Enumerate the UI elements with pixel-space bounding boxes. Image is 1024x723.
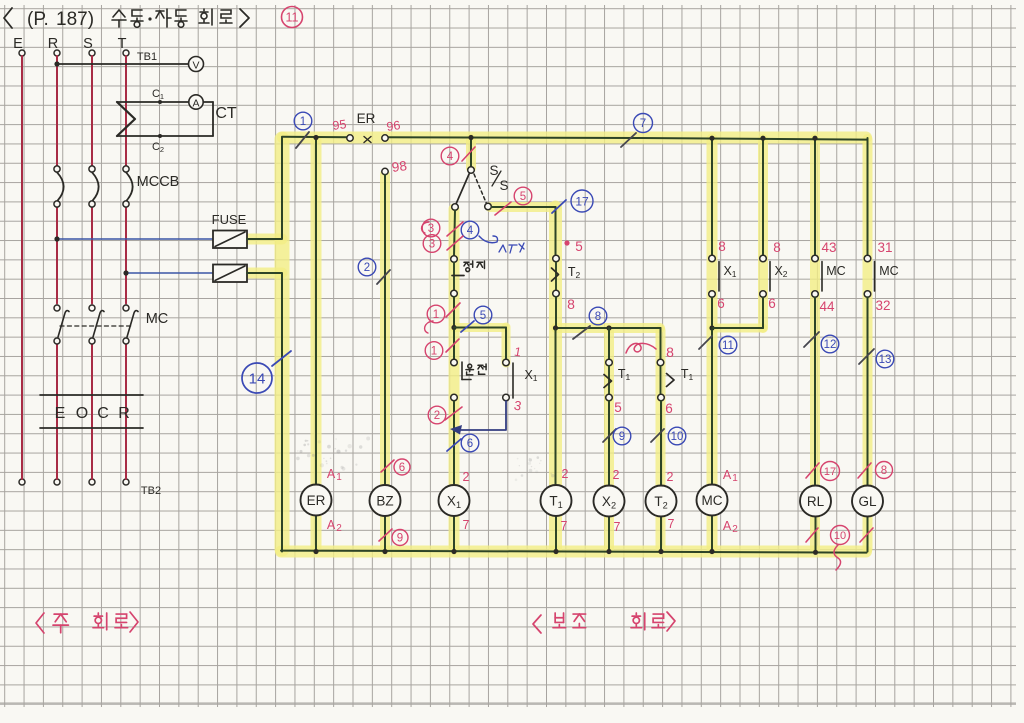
svg-text:6: 6	[717, 296, 725, 311]
svg-text:CT: CT	[215, 105, 237, 122]
svg-text:O: O	[76, 405, 88, 422]
svg-text:A: A	[327, 518, 336, 532]
svg-text:1: 1	[300, 116, 306, 128]
svg-text:7: 7	[561, 519, 568, 533]
svg-text:8: 8	[666, 344, 674, 360]
svg-text:V: V	[192, 60, 199, 72]
svg-text:1: 1	[336, 472, 342, 483]
svg-text:31: 31	[877, 240, 892, 255]
svg-text:(P.: (P.	[27, 9, 49, 30]
svg-text:17: 17	[824, 466, 836, 478]
svg-text:5: 5	[575, 239, 583, 254]
svg-text:MCCB: MCCB	[137, 174, 180, 190]
svg-text:BZ: BZ	[376, 494, 393, 509]
svg-text:10: 10	[671, 431, 684, 443]
svg-text:8: 8	[881, 465, 887, 477]
svg-text:9: 9	[619, 431, 625, 443]
svg-text:4: 4	[447, 151, 454, 163]
svg-text:ER: ER	[357, 111, 376, 126]
svg-text:14: 14	[249, 370, 266, 387]
svg-text:1: 1	[431, 346, 437, 358]
svg-text:2: 2	[613, 468, 620, 482]
svg-text:MC: MC	[879, 264, 898, 278]
svg-text:10: 10	[834, 530, 846, 542]
svg-text:E: E	[55, 405, 66, 422]
svg-text:A: A	[723, 468, 732, 482]
svg-text:3: 3	[429, 239, 435, 251]
svg-text:4: 4	[467, 225, 474, 237]
svg-text:TB1: TB1	[137, 51, 157, 63]
svg-text:17: 17	[575, 194, 589, 208]
svg-text:C: C	[97, 405, 109, 422]
svg-text:RL: RL	[807, 494, 825, 509]
svg-text:7: 7	[640, 118, 646, 130]
svg-text:6: 6	[665, 401, 673, 416]
svg-text:6: 6	[768, 296, 776, 311]
svg-text:32: 32	[875, 298, 890, 313]
svg-text:8: 8	[773, 240, 781, 255]
svg-text:2: 2	[463, 470, 470, 484]
svg-text:43: 43	[821, 240, 836, 255]
svg-text:GL: GL	[858, 494, 877, 509]
svg-text:8: 8	[567, 296, 575, 312]
svg-text:7: 7	[614, 520, 621, 534]
svg-text:9: 9	[397, 533, 403, 545]
svg-text:2: 2	[667, 470, 674, 484]
svg-text:2: 2	[434, 410, 440, 422]
svg-text:2: 2	[732, 524, 738, 535]
svg-text:12: 12	[824, 339, 837, 351]
svg-text:A: A	[723, 519, 732, 533]
svg-text:1: 1	[732, 473, 738, 484]
svg-text:A: A	[327, 467, 336, 481]
svg-text:2: 2	[562, 467, 569, 481]
svg-text:MC: MC	[702, 493, 723, 508]
svg-text:6: 6	[399, 462, 405, 474]
svg-text:2: 2	[364, 262, 370, 274]
svg-text:5: 5	[520, 191, 526, 203]
svg-text:7: 7	[463, 518, 470, 532]
svg-text:95: 95	[332, 117, 348, 133]
svg-text:S: S	[499, 178, 508, 193]
svg-text:187): 187)	[56, 9, 94, 30]
svg-text:5: 5	[614, 400, 622, 415]
svg-text:8: 8	[718, 239, 726, 254]
svg-text:44: 44	[819, 299, 835, 314]
svg-text:S: S	[489, 163, 498, 178]
svg-text:MC: MC	[146, 311, 169, 327]
svg-text:MC: MC	[826, 264, 845, 278]
svg-text:11: 11	[286, 11, 299, 25]
svg-text:6: 6	[467, 438, 473, 450]
svg-text:96: 96	[386, 118, 402, 134]
svg-text:R: R	[118, 405, 130, 422]
svg-text:2: 2	[336, 523, 342, 534]
svg-text:98: 98	[391, 158, 408, 175]
svg-text:1: 1	[433, 309, 439, 321]
svg-text:3: 3	[428, 223, 434, 235]
svg-text:7: 7	[668, 517, 675, 531]
svg-text:A: A	[192, 98, 199, 110]
svg-text:11: 11	[722, 340, 734, 352]
svg-text:8: 8	[595, 311, 601, 323]
svg-text:5: 5	[480, 310, 486, 322]
svg-text:TB2: TB2	[141, 485, 161, 497]
svg-text:FUSE: FUSE	[212, 212, 247, 227]
svg-text:13: 13	[879, 354, 892, 366]
svg-text:ER: ER	[307, 493, 326, 508]
